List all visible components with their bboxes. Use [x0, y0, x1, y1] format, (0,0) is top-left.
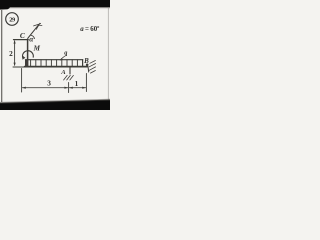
- svg-text:q: q: [64, 50, 67, 57]
- svg-text:3: 3: [47, 78, 51, 87]
- svg-text:C: C: [20, 31, 25, 40]
- svg-text:1: 1: [75, 79, 79, 88]
- svg-text:29: 29: [9, 16, 15, 23]
- svg-text:a=60o: a=60o: [80, 24, 99, 33]
- svg-text:2: 2: [9, 49, 13, 58]
- svg-text:M: M: [33, 44, 41, 52]
- svg-text:B: B: [83, 57, 89, 65]
- svg-text:A: A: [60, 69, 66, 76]
